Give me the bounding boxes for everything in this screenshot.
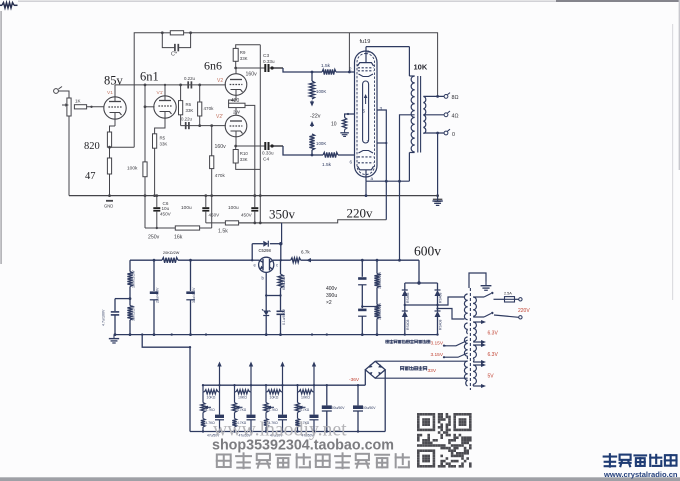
wire R10 to B+ column bbox=[236, 163, 261, 169]
resistor 10K cell 3 bbox=[265, 385, 267, 392]
svg-text:150KΩ/2W: 150KΩ/2W bbox=[378, 271, 382, 289]
svg-text:×2: ×2 bbox=[326, 300, 332, 306]
label heater note bbox=[386, 340, 389, 343]
wire V1p plate up bbox=[164, 85, 166, 96]
svg-text:10KΩ: 10KΩ bbox=[238, 396, 247, 400]
wire divider to cap bbox=[115, 298, 130, 300]
wire primary tap bottom bbox=[473, 316, 484, 318]
node grid1 junction bbox=[311, 71, 314, 74]
capacitor C4 0.33u bbox=[264, 142, 266, 150]
svg-text:150KΩ/2W: 150KΩ/2W bbox=[378, 302, 382, 320]
resistor 100k bbox=[143, 162, 147, 177]
capacitor 100u 50V b bbox=[357, 385, 359, 405]
svg-text:0.22u: 0.22u bbox=[184, 76, 196, 81]
wire shield ground bbox=[469, 273, 486, 288]
svg-text:33K: 33K bbox=[240, 157, 248, 162]
node feedback right bbox=[189, 31, 192, 34]
node grid tap V1p bbox=[144, 84, 147, 87]
svg-text:6.7k: 6.7k bbox=[301, 250, 310, 255]
svg-text:fu19: fu19 bbox=[360, 39, 371, 45]
tube V2p 6n6b bbox=[225, 115, 247, 137]
potentiometer volume bbox=[67, 98, 71, 116]
svg-text:V1: V1 bbox=[107, 90, 113, 96]
wire psu bottom rail bbox=[115, 334, 438, 336]
svg-text:0.22u: 0.22u bbox=[181, 117, 193, 122]
svg-text:www.crystalradio.cn: www.crystalradio.cn bbox=[603, 470, 678, 479]
node divider bbox=[129, 287, 131, 306]
svg-text:a: a bbox=[371, 176, 374, 181]
node grid2 junction bbox=[311, 154, 314, 157]
tube V1 6n1a bbox=[104, 97, 126, 119]
resistor feedback R* bbox=[170, 31, 183, 35]
wire primary center tap bbox=[400, 115, 415, 259]
svg-text:GND: GND bbox=[104, 204, 113, 209]
wire fu19 cathode bbox=[345, 114, 355, 118]
svg-text:1K: 1K bbox=[75, 99, 82, 104]
svg-text:1.5k: 1.5k bbox=[322, 162, 332, 168]
wire rail corner to bridge bbox=[418, 260, 420, 283]
svg-text:R9: R9 bbox=[240, 50, 246, 55]
node 820-47 junction bbox=[108, 146, 111, 149]
wire regulator rail bbox=[130, 259, 162, 261]
svg-text:RS408: RS408 bbox=[406, 320, 410, 330]
svg-text:V2': V2' bbox=[216, 114, 223, 120]
svg-text:220v: 220v bbox=[347, 206, 374, 221]
node C4 junction bbox=[234, 145, 237, 148]
resistor 420 2W bbox=[229, 103, 245, 107]
svg-text:33K: 33K bbox=[160, 142, 168, 147]
capacitor 0.1u 630V bbox=[280, 296, 282, 311]
svg-text:6n1: 6n1 bbox=[140, 70, 159, 84]
label heater 33V box bbox=[400, 367, 403, 371]
wire 6.3V taps b bbox=[473, 344, 483, 346]
svg-text:0.33u: 0.33u bbox=[262, 151, 274, 156]
wire input to pot bbox=[58, 91, 69, 98]
svg-text:shop35392304.taobao.com: shop35392304.taobao.com bbox=[212, 438, 394, 454]
node C3 out bbox=[269, 67, 272, 69]
svg-text:20KΩ/2W: 20KΩ/2W bbox=[163, 251, 180, 255]
diode RS408 right bottom bbox=[437, 305, 439, 311]
ground main rail bbox=[436, 194, 439, 197]
rectifier bias bridge bbox=[365, 361, 385, 378]
svg-text:5V: 5V bbox=[488, 374, 495, 380]
wire 220v line right bbox=[239, 220, 387, 223]
transformer power mains bbox=[469, 288, 471, 390]
wire 3.15V stub b bbox=[443, 356, 445, 358]
wire 250v riser bbox=[144, 196, 146, 228]
resistor R5 33K bbox=[153, 134, 157, 148]
node bridge left mid bbox=[404, 304, 406, 306]
wire 68K top bbox=[280, 260, 282, 274]
wire 5V taps bbox=[473, 364, 483, 366]
resistor 4.7K cell 1 bbox=[202, 413, 204, 419]
wire 1K to V1 grid bbox=[87, 106, 105, 108]
tube V1p 6n1b bbox=[154, 96, 176, 118]
resistor R9 33K bbox=[236, 45, 261, 49]
svg-text:R5: R5 bbox=[160, 136, 166, 141]
node B+ taps at rail bbox=[253, 194, 256, 197]
wire 3.15V stub a bbox=[444, 345, 447, 347]
svg-text:100k: 100k bbox=[127, 166, 138, 172]
wire bridge ac2 bbox=[438, 309, 465, 320]
tube fu19 bbox=[355, 51, 378, 177]
node 350v takeoff bbox=[279, 242, 282, 245]
wire V1p grid chain bbox=[144, 85, 146, 107]
resistor 1.5k upper bbox=[322, 69, 336, 74]
resistor 150K 2W a bbox=[127, 272, 132, 287]
resistor 4.7K cell 2 bbox=[234, 413, 236, 419]
wire page left border bbox=[0, 11, 2, 264]
svg-text:10KΩ: 10KΩ bbox=[301, 396, 310, 400]
wire bias cell 3 arrow bbox=[282, 364, 284, 385]
svg-text:10KΩ: 10KΩ bbox=[207, 396, 216, 400]
wire left column bbox=[129, 260, 131, 271]
wire bridge ac1 bbox=[405, 297, 465, 305]
svg-text:C4: C4 bbox=[263, 157, 269, 163]
wire screen down to 220v bbox=[385, 181, 387, 220]
svg-text:1.5k: 1.5k bbox=[321, 63, 331, 69]
svg-text:RS408: RS408 bbox=[439, 320, 443, 330]
svg-text:68KΩ/8W: 68KΩ/8W bbox=[282, 274, 286, 290]
svg-text:33K: 33K bbox=[240, 56, 248, 61]
wire V1p cathode to R5 bbox=[155, 118, 165, 134]
svg-text:33V: 33V bbox=[428, 368, 437, 374]
wire tap 4ohm bbox=[423, 114, 444, 116]
transistor C5298 bbox=[259, 257, 274, 272]
wire emitter bbox=[252, 259, 259, 261]
svg-text:4.7KΩ: 4.7KΩ bbox=[206, 408, 216, 412]
capacitor 47u cell 2 bbox=[250, 392, 252, 415]
resistor 10 cathode bbox=[342, 118, 346, 130]
ground psu main bbox=[113, 335, 115, 339]
wire primary bottom bbox=[409, 152, 414, 154]
wire V1 cathode down bbox=[114, 119, 116, 126]
wire collector bbox=[273, 259, 291, 261]
capacitor 100u second bbox=[253, 194, 256, 197]
svg-text:R10: R10 bbox=[240, 151, 249, 156]
svg-text:2W: 2W bbox=[233, 110, 241, 115]
resistor 16k bbox=[175, 226, 199, 230]
wire V1 cathode jog bbox=[110, 126, 116, 132]
svg-text:22u/400V: 22u/400V bbox=[156, 287, 160, 303]
resistor 100K lower bbox=[311, 123, 313, 127]
svg-text:a: a bbox=[367, 49, 370, 54]
diode RS408 right top bbox=[437, 283, 439, 290]
resistor 47 bbox=[109, 147, 111, 158]
resistor 470k upper bbox=[199, 85, 201, 102]
svg-text:6.3V: 6.3V bbox=[488, 352, 499, 358]
svg-text:1.5k: 1.5k bbox=[218, 229, 228, 235]
wire 0 tap to ground bbox=[437, 133, 439, 197]
wire anode bus bbox=[366, 180, 409, 182]
fuse 2.5A bbox=[494, 298, 505, 300]
svg-text:47: 47 bbox=[85, 171, 96, 182]
svg-text:5: 5 bbox=[363, 109, 366, 114]
svg-text:4Ω: 4Ω bbox=[452, 114, 459, 120]
capacitor 33u 400V bbox=[190, 260, 192, 291]
node 4.7u at rail bbox=[114, 333, 117, 336]
potentiometer 4.7K cell 1 bbox=[202, 392, 204, 403]
svg-text:100K: 100K bbox=[316, 89, 326, 94]
svg-text:100u/50V: 100u/50V bbox=[330, 406, 345, 410]
node C4 out bbox=[269, 145, 272, 147]
svg-text:10K: 10K bbox=[414, 63, 428, 72]
resistor 10K cell 2 bbox=[234, 385, 236, 392]
ground shield bbox=[485, 282, 487, 286]
capacitor 100u 50V a bbox=[326, 385, 328, 405]
wire V2p cathode down bbox=[235, 137, 237, 146]
wire 250v line bbox=[145, 227, 175, 229]
node 100k at rail bbox=[144, 194, 147, 197]
resistor R10 33K bbox=[235, 146, 237, 150]
svg-text:c: c bbox=[276, 263, 278, 268]
resistor 6.7k bbox=[291, 258, 301, 263]
svg-text:0.33u: 0.33u bbox=[263, 59, 275, 64]
svg-text:RS408: RS408 bbox=[406, 293, 410, 303]
wire bias cell 1 arrow bbox=[219, 364, 221, 385]
wire -36V rail bbox=[203, 384, 365, 386]
wire 100k column bbox=[144, 107, 146, 162]
wire B+ right column bbox=[259, 45, 261, 223]
svg-text:33u/400V: 33u/400V bbox=[192, 287, 196, 303]
svg-text:450V: 450V bbox=[160, 212, 172, 217]
svg-text:4.7KΩ: 4.7KΩ bbox=[237, 408, 247, 412]
wire 220v line bbox=[206, 222, 226, 224]
wire plate to C3 bbox=[236, 67, 265, 69]
wire lower coupling line bbox=[181, 125, 226, 127]
wire page right border bbox=[672, 24, 674, 300]
svg-text:10: 10 bbox=[331, 122, 337, 128]
resistor 1.5k lower bbox=[323, 152, 338, 157]
wire primary tap top bbox=[473, 296, 484, 298]
wire page bottom strip bbox=[0, 477, 680, 481]
svg-text:-22v: -22v bbox=[310, 114, 321, 120]
resistor 33K 2W bbox=[127, 306, 132, 321]
resistor 150K bleed a bbox=[376, 260, 378, 273]
svg-text:470k: 470k bbox=[215, 173, 226, 178]
svg-text:C*: C* bbox=[171, 52, 178, 58]
potentiometer 4.7K cell 3 bbox=[265, 392, 267, 403]
transformer output 10K bbox=[411, 76, 414, 83]
wire fu19 lower plate bbox=[365, 170, 367, 181]
node feedback left bbox=[161, 31, 164, 34]
resistor 68K 8W bbox=[280, 260, 282, 272]
svg-text:6n6: 6n6 bbox=[204, 59, 222, 73]
node 470k upper tap bbox=[198, 84, 201, 87]
qr code bbox=[417, 413, 472, 468]
wire ground rail bbox=[69, 195, 438, 197]
svg-text:450V: 450V bbox=[209, 213, 221, 218]
resistor 1K grid stopper bbox=[74, 105, 86, 109]
watermark scan qr note bbox=[217, 454, 231, 467]
wire bus to rail bbox=[365, 181, 367, 195]
svg-text:10u: 10u bbox=[162, 206, 170, 211]
wire tap 0ohm bbox=[423, 132, 444, 134]
svg-text:2: 2 bbox=[349, 67, 352, 72]
wire feedback to V1 cathode bbox=[133, 85, 135, 147]
wire screen pin7 bbox=[377, 142, 386, 144]
svg-text:390u: 390u bbox=[326, 293, 337, 299]
capacitor C* bbox=[162, 33, 174, 48]
capacitor 22u 400V bbox=[153, 260, 155, 291]
capacitor 390u a bbox=[361, 260, 363, 277]
capacitor 390u b bbox=[358, 309, 366, 312]
wire C4 to grid line bbox=[272, 145, 283, 147]
svg-text:6.3V: 6.3V bbox=[488, 331, 499, 337]
wire plate line bbox=[115, 84, 226, 86]
svg-text:400v: 400v bbox=[326, 286, 337, 292]
wire 350v line bbox=[239, 222, 282, 224]
wire bridge top bus bbox=[405, 282, 438, 284]
svg-text:10KΩ: 10KΩ bbox=[270, 396, 279, 400]
capacitor 100u first bbox=[204, 194, 207, 197]
svg-text:420: 420 bbox=[231, 98, 240, 104]
svg-text:820: 820 bbox=[84, 141, 100, 152]
node input jack bbox=[54, 89, 59, 94]
capacitor C6 10u bbox=[156, 196, 158, 208]
capacitor 0.22u upper bbox=[187, 81, 189, 88]
logo crystalradio hanzi bbox=[604, 454, 616, 466]
wire R6 to lower coupling bbox=[180, 115, 182, 126]
wire bias bottom rail bbox=[190, 431, 385, 433]
wire base to RC bbox=[266, 295, 280, 297]
svg-text:4.7u/100V: 4.7u/100V bbox=[102, 309, 106, 326]
svg-text:160v: 160v bbox=[215, 144, 227, 150]
svg-text:600v: 600v bbox=[414, 244, 441, 259]
svg-text:V2: V2 bbox=[217, 78, 223, 84]
tube V2 6n6a bbox=[225, 74, 247, 96]
resistor 20K 2W bbox=[162, 258, 178, 263]
svg-text:RS408: RS408 bbox=[439, 293, 443, 303]
wire feedback top bbox=[134, 33, 162, 85]
svg-text:6: 6 bbox=[350, 160, 353, 165]
wire bias plus down bbox=[384, 370, 386, 432]
svg-text:100u: 100u bbox=[228, 205, 239, 211]
wire screen pin3 bbox=[377, 110, 386, 181]
svg-text:100u/50V: 100u/50V bbox=[361, 406, 376, 410]
node R6 tap bbox=[179, 84, 182, 87]
wire page top border bbox=[18, 0, 560, 2]
node mains terminal 2 bbox=[519, 316, 522, 319]
resistor 4.7K cell 4 bbox=[297, 413, 299, 419]
resistor 470k lower bbox=[211, 126, 213, 156]
svg-text:16k: 16k bbox=[174, 235, 183, 241]
wire fu19 top plate bbox=[365, 47, 367, 63]
node R5 at rail bbox=[153, 194, 156, 197]
node 600v line bbox=[361, 259, 364, 262]
wire bias cell 4 arrow bbox=[313, 364, 315, 385]
wire bias ac bottom bbox=[375, 377, 467, 379]
svg-text:33KΩ/2W: 33KΩ/2W bbox=[132, 305, 136, 321]
svg-text:450V: 450V bbox=[241, 213, 253, 218]
wire tap 8ohm bbox=[423, 95, 444, 97]
wire to C4 bbox=[236, 145, 265, 147]
wire primary top bbox=[408, 47, 410, 76]
wire bias cell 2 arrow bbox=[250, 364, 252, 385]
diode bypass bbox=[251, 244, 253, 261]
svg-text:33K: 33K bbox=[186, 108, 194, 113]
svg-text:250v: 250v bbox=[148, 235, 160, 241]
ground GND V1 bbox=[106, 200, 113, 202]
svg-text:0: 0 bbox=[452, 132, 455, 138]
wire base bbox=[265, 272, 267, 308]
wire 470k2 below rail bbox=[211, 196, 213, 228]
svg-text:220V: 220V bbox=[518, 308, 530, 314]
svg-text:8Ω: 8Ω bbox=[452, 95, 459, 101]
node V1 cathode chain at rail bbox=[108, 194, 111, 197]
node 470k2 tap bbox=[210, 124, 213, 127]
svg-text:160v: 160v bbox=[246, 72, 258, 78]
svg-text:100u: 100u bbox=[181, 205, 192, 211]
resistor 150K bleed b bbox=[374, 305, 379, 319]
capacitor 0.22u lower bbox=[185, 122, 187, 129]
svg-text:3.15V: 3.15V bbox=[431, 352, 444, 358]
wire cap-res link bbox=[362, 306, 377, 308]
wire bias minus bbox=[364, 370, 366, 386]
svg-text:350v: 350v bbox=[269, 207, 296, 222]
wire V2 cathode to 420 bbox=[229, 95, 236, 103]
wire bias ac top bbox=[375, 360, 467, 362]
zener diode bbox=[265, 309, 267, 311]
node 470k2 at rail bbox=[210, 194, 213, 197]
capacitor 47u cell 4 bbox=[313, 392, 315, 415]
wire 6.3V taps a bbox=[473, 321, 483, 323]
resistor 4.7K cell 3 bbox=[265, 413, 267, 419]
capacitor 47u cell 1 bbox=[219, 392, 221, 415]
svg-text:R6: R6 bbox=[186, 102, 192, 107]
capacitor 47u cell 3 bbox=[282, 392, 284, 415]
capacitor 4.7u 100V bbox=[111, 311, 119, 313]
node V2 plate bbox=[234, 67, 237, 70]
wire ground branch bbox=[142, 335, 190, 432]
wire V2 grid bbox=[224, 84, 227, 86]
wire V1 plate to top line bbox=[114, 85, 116, 97]
svg-text:-36V: -36V bbox=[349, 377, 360, 383]
diode RS408 left bottom bbox=[404, 305, 406, 311]
resistor 10K cell 1 bbox=[202, 385, 204, 392]
potentiometer 4.7K cell 2 bbox=[234, 392, 236, 403]
resistor corner doodle bbox=[0, 4, 2, 6]
node bridge right mid bbox=[436, 304, 438, 306]
svg-text:C5298: C5298 bbox=[259, 248, 272, 253]
potentiometer 4.7K cell 4 bbox=[297, 392, 299, 403]
diode RS408 left top bbox=[404, 283, 406, 290]
svg-text:0.1u/630V: 0.1u/630V bbox=[282, 308, 286, 325]
svg-text:150KΩ/2W: 150KΩ/2W bbox=[132, 270, 136, 288]
node mains terminal 1 bbox=[519, 298, 522, 301]
resistor 10K cell 4 bbox=[297, 385, 299, 392]
svg-text:3.15V: 3.15V bbox=[431, 341, 444, 347]
wire C3 to grid line bbox=[272, 67, 283, 69]
resistor 100K upper bbox=[309, 81, 314, 99]
svg-text:4.7KΩ: 4.7KΩ bbox=[300, 408, 310, 412]
ground speaker return bbox=[437, 197, 439, 201]
wire feedback stub bbox=[348, 33, 350, 72]
wire hv tap top bbox=[465, 294, 468, 297]
resistor 820 cathode bbox=[107, 132, 111, 147]
svg-text:4.7KΩ: 4.7KΩ bbox=[269, 408, 279, 412]
svg-text:2.5A: 2.5A bbox=[504, 292, 512, 296]
svg-text:7: 7 bbox=[367, 139, 370, 144]
ground fu19 cathode bbox=[344, 130, 346, 133]
svg-text:V1': V1' bbox=[157, 90, 164, 96]
wire 420 to column bbox=[245, 105, 255, 195]
capacitor C3 0.33u bbox=[264, 64, 266, 72]
resistor R6 33K bbox=[180, 85, 182, 101]
resistor 1.5k mid bbox=[225, 221, 238, 225]
svg-text:470k: 470k bbox=[204, 106, 215, 111]
svg-text:100K: 100K bbox=[316, 141, 326, 146]
